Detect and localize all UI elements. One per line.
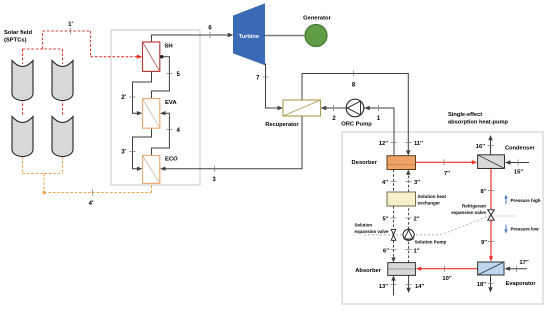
svg-text:Generator: Generator bbox=[303, 16, 331, 22]
svg-text:Single-effect: Single-effect bbox=[448, 112, 482, 118]
svg-text:3″: 3″ bbox=[414, 180, 420, 186]
svg-text:3: 3 bbox=[212, 177, 216, 183]
svg-text:ECO: ECO bbox=[165, 157, 178, 163]
svg-text:6: 6 bbox=[208, 26, 212, 32]
svg-text:2′: 2′ bbox=[121, 95, 126, 101]
svg-text:14″: 14″ bbox=[415, 284, 424, 290]
svg-text:Pressure high: Pressure high bbox=[511, 198, 541, 203]
svg-text:Desorber: Desorber bbox=[352, 160, 378, 166]
svg-text:exchanger: exchanger bbox=[418, 201, 441, 206]
svg-text:Solution heat: Solution heat bbox=[418, 194, 447, 199]
svg-text:ORC Pump: ORC Pump bbox=[341, 122, 372, 128]
svg-text:10″: 10″ bbox=[442, 276, 451, 282]
svg-text:4″: 4″ bbox=[382, 180, 388, 186]
svg-text:EVA: EVA bbox=[165, 100, 177, 106]
svg-text:1″: 1″ bbox=[414, 248, 420, 254]
svg-text:expansion valve: expansion valve bbox=[451, 210, 486, 215]
svg-text:7: 7 bbox=[256, 76, 260, 82]
svg-text:SH: SH bbox=[165, 44, 173, 50]
svg-text:18″: 18″ bbox=[477, 282, 486, 288]
svg-text:17″: 17″ bbox=[519, 260, 528, 266]
svg-text:Solution: Solution bbox=[355, 222, 373, 227]
svg-text:(SPTCs): (SPTCs) bbox=[4, 38, 27, 44]
svg-text:12″: 12″ bbox=[379, 141, 388, 147]
svg-text:11″: 11″ bbox=[414, 141, 423, 147]
svg-text:Condenser: Condenser bbox=[505, 146, 535, 152]
svg-text:9″: 9″ bbox=[481, 240, 487, 246]
svg-text:5: 5 bbox=[177, 72, 181, 78]
svg-text:5″: 5″ bbox=[382, 216, 388, 222]
svg-text:16″: 16″ bbox=[476, 144, 485, 150]
svg-text:Refrigerant: Refrigerant bbox=[462, 204, 487, 209]
svg-text:1′: 1′ bbox=[68, 22, 73, 28]
svg-text:Pressure low: Pressure low bbox=[511, 227, 540, 232]
svg-text:Solution Pump: Solution Pump bbox=[415, 240, 447, 245]
svg-text:6″: 6″ bbox=[383, 248, 389, 254]
svg-text:3′: 3′ bbox=[121, 150, 126, 156]
svg-text:8: 8 bbox=[352, 83, 356, 89]
svg-text:13″: 13″ bbox=[379, 284, 388, 290]
svg-text:4′: 4′ bbox=[89, 201, 94, 207]
svg-text:8″: 8″ bbox=[480, 189, 486, 195]
svg-text:expansion valve: expansion valve bbox=[355, 229, 389, 234]
svg-text:1: 1 bbox=[377, 116, 381, 122]
svg-text:2: 2 bbox=[332, 116, 336, 122]
svg-text:7″: 7″ bbox=[444, 171, 450, 177]
svg-text:absorption heat-pump: absorption heat-pump bbox=[448, 120, 509, 126]
svg-text:Solar field: Solar field bbox=[4, 30, 32, 36]
svg-text:2″: 2″ bbox=[414, 216, 420, 222]
svg-text:Turbine: Turbine bbox=[239, 34, 259, 40]
svg-text:Recuperator: Recuperator bbox=[265, 122, 299, 128]
svg-text:Evaporator: Evaporator bbox=[506, 281, 537, 287]
svg-text:15″: 15″ bbox=[514, 170, 523, 176]
svg-text:4: 4 bbox=[177, 128, 181, 134]
svg-text:Absorber: Absorber bbox=[355, 268, 382, 274]
